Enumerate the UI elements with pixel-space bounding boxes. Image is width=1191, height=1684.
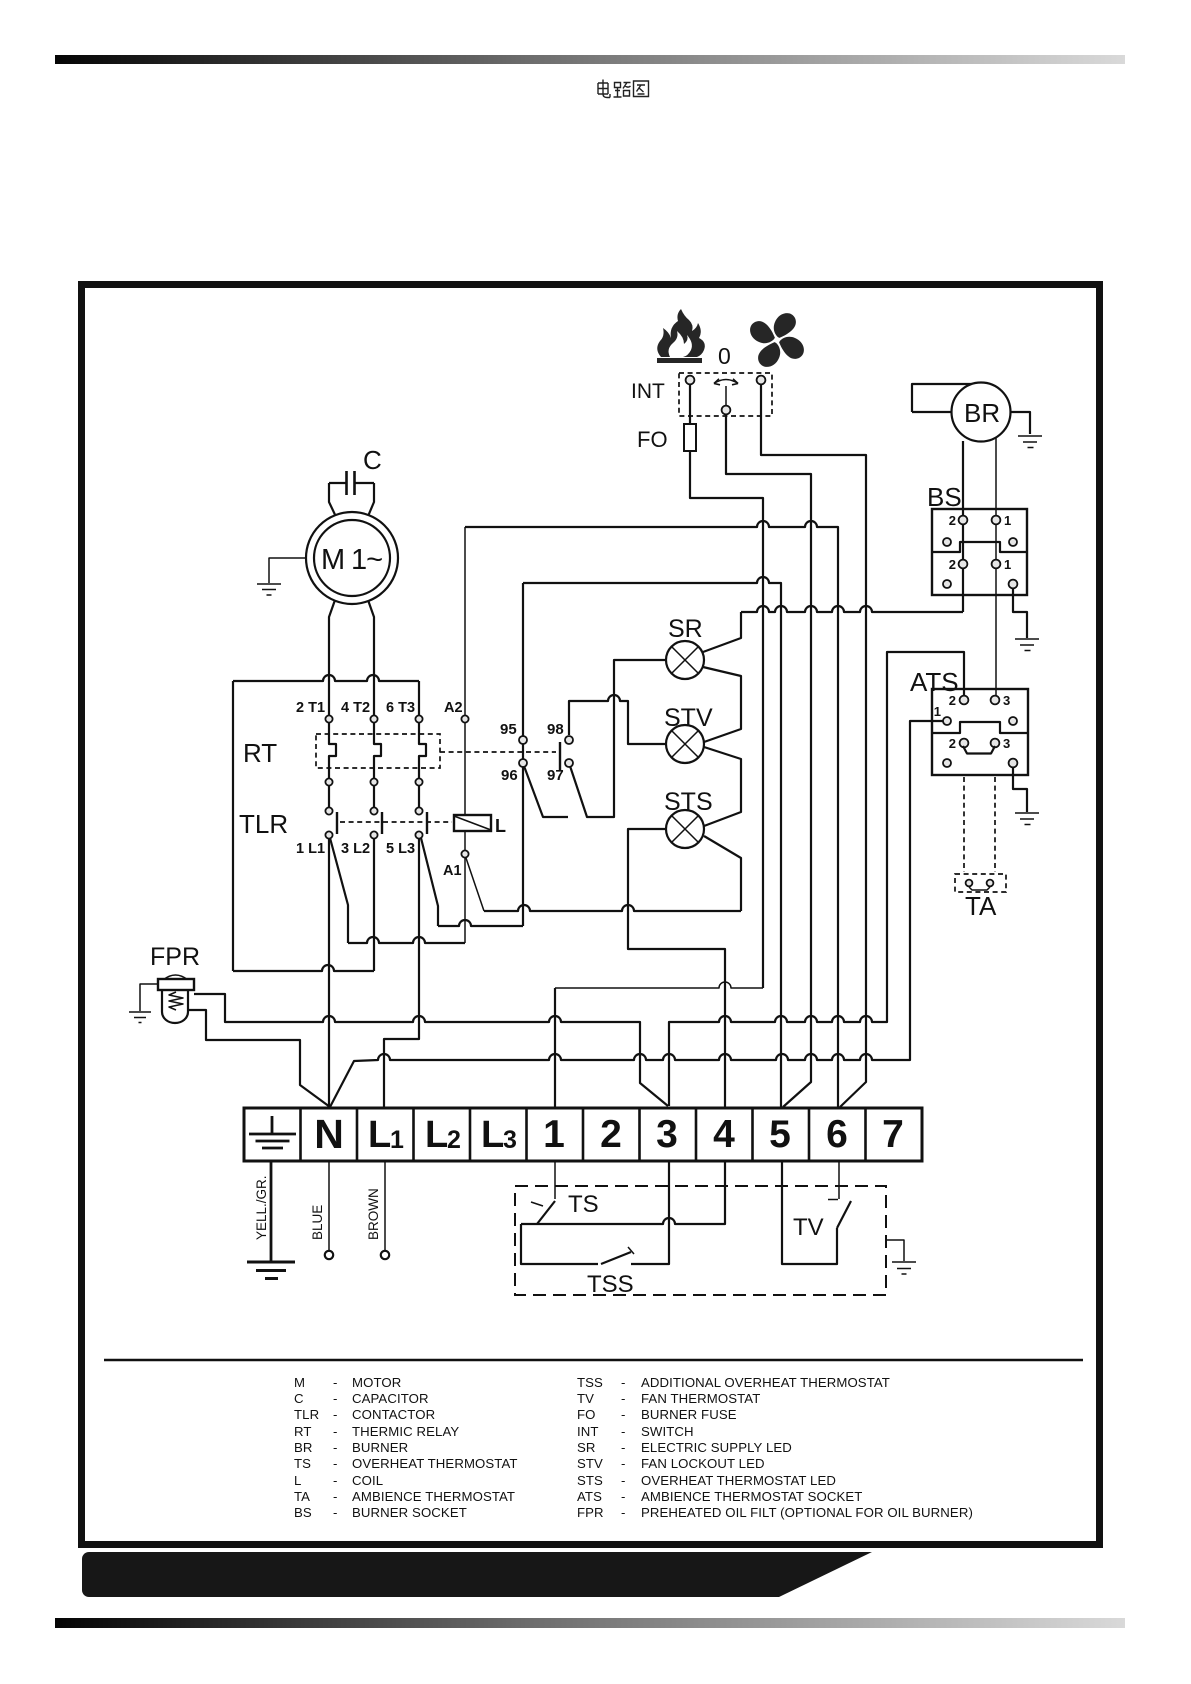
- wire RT-TLR enclosure top edge: [233, 675, 419, 681]
- wire 95-96 column: [522, 583, 524, 926]
- svg-text:TA: TA: [294, 1489, 310, 1504]
- svg-text:COIL: COIL: [352, 1473, 383, 1488]
- thermostat TV: [782, 1161, 851, 1264]
- svg-text:TS: TS: [568, 1191, 599, 1218]
- ambience thermostat TA dashed box: [955, 874, 1006, 892]
- svg-text:A1: A1: [443, 863, 462, 879]
- main border frame: [82, 285, 1100, 1545]
- svg-text:-: -: [621, 1456, 626, 1471]
- svg-text:CONTACTOR: CONTACTOR: [352, 1407, 435, 1422]
- legend column 2: [577, 1375, 973, 1520]
- svg-text:-: -: [621, 1489, 626, 1504]
- svg-text:AMBIENCE THERMOSTAT SOCKET: AMBIENCE THERMOSTAT SOCKET: [641, 1489, 862, 1504]
- wire bus A right (terminal 3 to ATS socket pin 2): [669, 652, 964, 1106]
- ground (BS): [1015, 639, 1039, 651]
- svg-text:L: L: [495, 816, 506, 836]
- svg-text:STS: STS: [664, 788, 713, 816]
- svg-text:ELECTRIC SUPPLY LED: ELECTRIC SUPPLY LED: [641, 1440, 792, 1455]
- svg-text:1: 1: [1004, 513, 1011, 528]
- wire column 6T3-5L3 to terminal L1: [419, 681, 426, 811]
- wire SR left to relay contact 97: [570, 660, 666, 817]
- flame icon: [657, 309, 705, 363]
- BROWN wire: [381, 1161, 389, 1259]
- svg-text:-: -: [333, 1424, 338, 1439]
- svg-text:96: 96: [501, 767, 518, 784]
- svg-text:5 L3: 5 L3: [386, 841, 415, 857]
- wire TA dashed drops: [964, 777, 995, 872]
- terminal circles RT/TLR columns: [325, 715, 468, 857]
- svg-text:4 T2: 4 T2: [341, 700, 370, 716]
- INT terminal circles: [686, 376, 766, 415]
- ambience thermostat socket ATS box: [932, 689, 1028, 775]
- svg-text:TSS: TSS: [587, 1271, 634, 1298]
- wire lamp chain STS to A1 blade line: [704, 836, 741, 911]
- svg-text:OVERHEAT THERMOSTAT: OVERHEAT THERMOSTAT: [352, 1456, 518, 1471]
- svg-text:BS: BS: [294, 1505, 312, 1520]
- svg-text:FO: FO: [577, 1407, 596, 1422]
- svg-text:AMBIENCE THERMOSTAT: AMBIENCE THERMOSTAT: [352, 1489, 515, 1504]
- wire RT-TLR enclosure bottom edge: [233, 965, 374, 971]
- svg-text:3: 3: [656, 1113, 678, 1156]
- svg-text:YELL./GR.: YELL./GR.: [254, 1175, 269, 1240]
- svg-text:1: 1: [1004, 557, 1011, 572]
- legend separator line: [104, 1359, 1083, 1362]
- svg-text:3: 3: [1003, 736, 1010, 751]
- svg-text:7: 7: [882, 1113, 904, 1156]
- ground (TS box): [886, 1240, 916, 1274]
- svg-text:TLR: TLR: [239, 809, 288, 839]
- svg-text:INT: INT: [631, 380, 665, 403]
- wire ATS pin ground: [1013, 767, 1027, 812]
- svg-text:ATS: ATS: [577, 1489, 602, 1504]
- svg-text:-: -: [333, 1407, 338, 1422]
- svg-text:SR: SR: [668, 615, 703, 643]
- wire A2 column: [464, 527, 466, 716]
- svg-text:BS: BS: [927, 482, 962, 512]
- svg-text:THERMIC RELAY: THERMIC RELAY: [352, 1424, 459, 1439]
- svg-text:98: 98: [547, 721, 564, 738]
- bottom gradient bar: [55, 1618, 1125, 1628]
- svg-text:BROWN: BROWN: [366, 1188, 381, 1240]
- lamp STS: [666, 810, 704, 848]
- svg-text:2: 2: [600, 1113, 622, 1156]
- svg-text:FPR: FPR: [577, 1505, 604, 1520]
- wire BS pin ground: [1013, 588, 1027, 638]
- svg-text:6: 6: [826, 1113, 848, 1156]
- thermostat TSS: [521, 1161, 669, 1264]
- wire motor case to ground: [269, 558, 306, 583]
- wire FPR bottom to terminal N: [188, 1010, 330, 1107]
- svg-text:-: -: [333, 1473, 338, 1488]
- svg-text:-: -: [621, 1391, 626, 1406]
- svg-text:3: 3: [1003, 693, 1010, 708]
- wire TLR blade L3 to 95 column: [421, 838, 438, 926]
- svg-text:M 1~: M 1~: [321, 544, 383, 576]
- svg-text:C: C: [363, 445, 382, 475]
- svg-text:-: -: [333, 1391, 338, 1406]
- wire RT-TLR enclosure left edge: [232, 681, 234, 971]
- TLR contact bars: [337, 812, 427, 834]
- svg-text:TV: TV: [577, 1391, 594, 1406]
- svg-text:BURNER: BURNER: [352, 1440, 408, 1455]
- svg-text:3 L2: 3 L2: [341, 841, 370, 857]
- wire lamp chain SR top: [703, 612, 741, 652]
- svg-text:2: 2: [949, 513, 956, 528]
- burner socket BS box: [932, 509, 1027, 595]
- svg-text:95: 95: [500, 721, 517, 738]
- wire FPR cap to ground: [140, 984, 158, 1011]
- wire STV left to relay contact 98: [569, 695, 666, 744]
- svg-text:INT: INT: [577, 1424, 599, 1439]
- capacitor C: [329, 471, 374, 521]
- wire 96 blade: [524, 766, 568, 817]
- title 电路图: [598, 80, 649, 98]
- svg-text:97: 97: [547, 767, 564, 784]
- svg-text:-: -: [621, 1375, 626, 1390]
- lamp STV: [666, 725, 704, 763]
- svg-text:TS: TS: [294, 1456, 311, 1471]
- ATS terminal circles: [943, 696, 1017, 768]
- svg-text:BURNER FUSE: BURNER FUSE: [641, 1407, 737, 1422]
- svg-text:1: 1: [390, 1126, 404, 1154]
- svg-text:-: -: [333, 1505, 338, 1520]
- svg-text:6 T3: 6 T3: [386, 700, 415, 716]
- wire bus B (terminal N to ATS socket pin 1): [330, 721, 943, 1107]
- contactor TLR dashed link to coil: [340, 821, 452, 823]
- terminal strip: [244, 1108, 922, 1161]
- svg-text:2: 2: [949, 736, 956, 751]
- dashed link RT to 95-98 contact: [440, 751, 556, 753]
- svg-text:L: L: [425, 1114, 448, 1156]
- thermostat TS: [521, 1161, 725, 1224]
- TS TSS TV dashed box: [515, 1186, 886, 1295]
- svg-text:STV: STV: [664, 704, 713, 732]
- PE symbol in strip: [249, 1116, 296, 1148]
- ATS plug jumper: [963, 746, 995, 754]
- wire A1 blade to lamp chain: [466, 858, 484, 911]
- svg-text:FO: FO: [637, 427, 668, 452]
- svg-text:FAN THERMOSTAT: FAN THERMOSTAT: [641, 1391, 760, 1406]
- svg-text:MOTOR: MOTOR: [352, 1375, 401, 1390]
- contact bar 98: [559, 742, 561, 770]
- main earth wire and symbol: [247, 1161, 295, 1279]
- wire lamp chain SR to STV: [703, 667, 741, 742]
- svg-text:TLR: TLR: [294, 1407, 319, 1422]
- svg-text:-: -: [621, 1424, 626, 1439]
- svg-text:RT: RT: [243, 738, 277, 768]
- svg-text:L: L: [368, 1114, 391, 1156]
- svg-text:ADDITIONAL OVERHEAT THERMOSTAT: ADDITIONAL OVERHEAT THERMOSTAT: [641, 1375, 890, 1390]
- svg-text:1 L1: 1 L1: [296, 841, 325, 857]
- wire bus A left (FPR top feed to terminal 3 diagonal): [194, 994, 668, 1106]
- motor M1~: [306, 512, 398, 604]
- BLUE wire: [325, 1161, 333, 1259]
- svg-text:-: -: [621, 1473, 626, 1488]
- ground (burner BR): [1018, 436, 1042, 448]
- svg-text:1: 1: [543, 1113, 565, 1156]
- wire 95 link to terminal 5 column: [523, 577, 781, 1107]
- svg-text:-: -: [333, 1440, 338, 1455]
- preheater FPR: [158, 975, 194, 1023]
- svg-text:2 T1: 2 T1: [296, 700, 325, 716]
- wire coil link A2-L-A1: [464, 723, 466, 850]
- wire INT right terminal to terminal 6 diagonal: [761, 384, 866, 1107]
- bottom black shape: [82, 1552, 872, 1597]
- svg-text:SR: SR: [577, 1440, 596, 1455]
- svg-text:M: M: [294, 1375, 305, 1390]
- wire A2 bus to terminal 6 column: [465, 521, 838, 1107]
- svg-text:5: 5: [769, 1113, 791, 1156]
- legend column 1: [294, 1375, 518, 1520]
- svg-text:L: L: [294, 1473, 301, 1488]
- svg-text:N: N: [314, 1111, 344, 1157]
- ground (ATS): [1015, 813, 1039, 825]
- wire INT left terminal through fuse FO to terminal 1: [690, 384, 763, 988]
- coil L: [454, 815, 491, 831]
- terminal circles 95 96 97 98: [519, 736, 573, 767]
- wire BR to BS pin 1 and ATS pin 3 (thin): [995, 438, 997, 696]
- svg-text:2: 2: [949, 693, 956, 708]
- svg-text:3: 3: [503, 1126, 517, 1154]
- BS terminal circles: [943, 516, 1017, 589]
- svg-text:-: -: [621, 1505, 626, 1520]
- svg-text:SWITCH: SWITCH: [641, 1424, 694, 1439]
- TA contact circles and link: [966, 880, 994, 890]
- wire BR to BS pin 2 (thick): [962, 441, 964, 612]
- fan icon: [750, 313, 804, 367]
- svg-text:2: 2: [949, 557, 956, 572]
- svg-text:FPR: FPR: [150, 943, 200, 971]
- wire TLR blade L1 to coil A1: [330, 838, 348, 943]
- wire lamp chain STV to STS: [704, 747, 741, 826]
- wire STS left to terminal 4: [628, 829, 725, 1107]
- svg-text:-: -: [621, 1407, 626, 1422]
- wire motor lead T2 / column 4T2-3L2: [368, 600, 381, 811]
- svg-text:L: L: [481, 1114, 504, 1156]
- svg-text:A2: A2: [444, 700, 463, 716]
- svg-text:TSS: TSS: [577, 1375, 603, 1390]
- svg-text:OVERHEAT THERMOSTAT LED: OVERHEAT THERMOSTAT LED: [641, 1473, 836, 1488]
- wire BR right to ground: [1010, 412, 1030, 434]
- svg-text:STS: STS: [577, 1473, 603, 1488]
- svg-text:2: 2: [447, 1126, 461, 1154]
- svg-text:PREHEATED OIL FILT (OPTIONAL F: PREHEATED OIL FILT (OPTIONAL FOR OIL BUR…: [641, 1505, 973, 1520]
- top gradient bar: [55, 55, 1125, 64]
- svg-text:-: -: [333, 1375, 338, 1390]
- INT pivot and arrow: [714, 379, 738, 407]
- wire INT centre terminal to terminal 5 diagonal: [726, 414, 811, 1107]
- svg-text:0: 0: [718, 343, 731, 369]
- wire motor lead T1 / column 2T1-1L1 / N column: [329, 600, 336, 811]
- svg-text:BR: BR: [294, 1440, 313, 1455]
- switch INT dashed box: [679, 373, 772, 416]
- svg-text:C: C: [294, 1391, 304, 1406]
- ground (FPR): [129, 1012, 151, 1023]
- svg-text:RT: RT: [294, 1424, 312, 1439]
- svg-text:-: -: [621, 1440, 626, 1455]
- svg-text:FAN LOCKOUT LED: FAN LOCKOUT LED: [641, 1456, 765, 1471]
- ground (motor): [257, 584, 281, 595]
- svg-text:STV: STV: [577, 1456, 603, 1471]
- wire BS bottom bus to lamp chain: [741, 606, 963, 612]
- svg-text:BURNER SOCKET: BURNER SOCKET: [352, 1505, 467, 1520]
- svg-text:4: 4: [713, 1113, 735, 1156]
- fuse FO: [684, 424, 696, 451]
- svg-text:-: -: [333, 1489, 338, 1504]
- lamp SR: [666, 641, 704, 679]
- svg-text:TV: TV: [793, 1214, 824, 1241]
- svg-text:TA: TA: [965, 891, 997, 921]
- svg-text:1: 1: [934, 704, 941, 719]
- svg-text:CAPACITOR: CAPACITOR: [352, 1391, 429, 1406]
- svg-text:BR: BR: [964, 398, 1000, 428]
- burner BR: [912, 383, 1011, 442]
- thermal relay RT dashed box: [316, 734, 440, 768]
- svg-text:-: -: [333, 1456, 338, 1471]
- svg-text:BLUE: BLUE: [310, 1205, 325, 1240]
